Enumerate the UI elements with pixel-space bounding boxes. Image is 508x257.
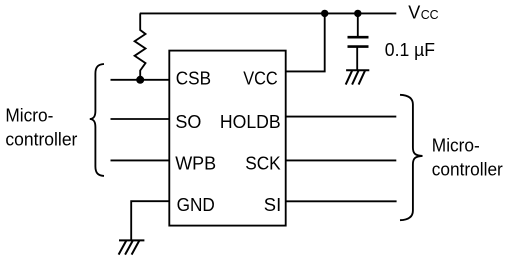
brace left (microcontroller bus): [90, 64, 104, 176]
wire HOLDB: [286, 116, 397, 118]
svg-text:VCC: VCC: [243, 69, 278, 89]
ground (GND pin): [119, 240, 145, 254]
wire capacitor bottom lead: [356, 47, 358, 71]
svg-text:Micro-: Micro-: [432, 135, 480, 155]
svg-text:GND: GND: [177, 195, 215, 215]
wire CSB: [111, 79, 170, 81]
ground (capacitor): [346, 70, 370, 84]
resistor R1: [135, 13, 146, 79]
svg-text:0.1 µF: 0.1 µF: [385, 40, 435, 60]
capacitor C1: [348, 36, 369, 39]
wire VCC pin to rail: [286, 13, 325, 71]
junction dot CSB node: [136, 76, 144, 84]
svg-text:controller: controller: [5, 130, 77, 150]
brace right (microcontroller bus): [400, 95, 423, 220]
svg-text:controller: controller: [432, 159, 503, 179]
svg-text:Micro-: Micro-: [5, 106, 53, 126]
wire WPB: [111, 159, 170, 161]
svg-text:CSB: CSB: [176, 69, 211, 89]
IC U1 body: [169, 51, 285, 226]
svg-text:SCK: SCK: [245, 154, 281, 174]
svg-text:SO: SO: [175, 112, 201, 132]
wire SCK: [286, 159, 397, 161]
wire capacitor top lead: [357, 13, 359, 37]
svg-text:CC: CC: [421, 8, 439, 22]
wire SI: [286, 200, 397, 202]
junction dot VCC rail to capacitor: [354, 10, 361, 17]
junction dot VCC rail to IC: [321, 10, 328, 17]
svg-text:WPB: WPB: [175, 154, 216, 174]
svg-text:V: V: [408, 3, 420, 23]
wire top VCC rail: [140, 12, 397, 14]
svg-text:HOLDB: HOLDB: [220, 112, 281, 132]
svg-text:SI: SI: [264, 195, 281, 215]
wire GND: [131, 201, 169, 240]
wire SO: [111, 118, 170, 120]
